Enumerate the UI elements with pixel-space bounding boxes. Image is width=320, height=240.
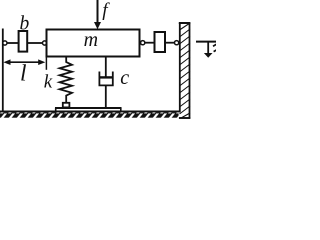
svg-text:l: l [20, 60, 27, 86]
pivot circle at wall [175, 41, 179, 45]
pivot circle at mass right [141, 41, 145, 45]
damper C cup [99, 72, 112, 86]
damper C piston plate [100, 76, 112, 78]
force arrow f [94, 0, 101, 29]
wire mass to right damper [145, 42, 154, 44]
svg-text:m: m [84, 29, 98, 51]
damper C piston rod [105, 58, 107, 78]
wire damper b to mass [28, 42, 43, 44]
ground top line [0, 111, 181, 113]
left support post [2, 29, 4, 112]
damper B body [19, 31, 28, 52]
plinth plate under spring/damper [55, 108, 122, 111]
right damper body [155, 32, 166, 52]
right wall (hatched column) [179, 23, 191, 118]
partial label x at right edge [213, 44, 217, 51]
wire left post to damper b [5, 42, 19, 44]
dimension line l [3, 59, 45, 65]
witness line below mass left edge [45, 58, 47, 70]
spring foot block [63, 103, 70, 108]
spring K [60, 58, 72, 104]
svg-text:k: k [44, 72, 53, 93]
damper C lower rod [105, 85, 107, 108]
ground hatched band [0, 112, 179, 117]
pivot circle at mass left [43, 41, 47, 45]
pivot circle on left post [3, 41, 7, 45]
svg-text:b: b [20, 14, 30, 35]
svg-text:c: c [120, 67, 129, 89]
datum T with down arrow [196, 42, 216, 58]
mass box M [47, 30, 140, 57]
wire right damper to wall [166, 42, 175, 44]
